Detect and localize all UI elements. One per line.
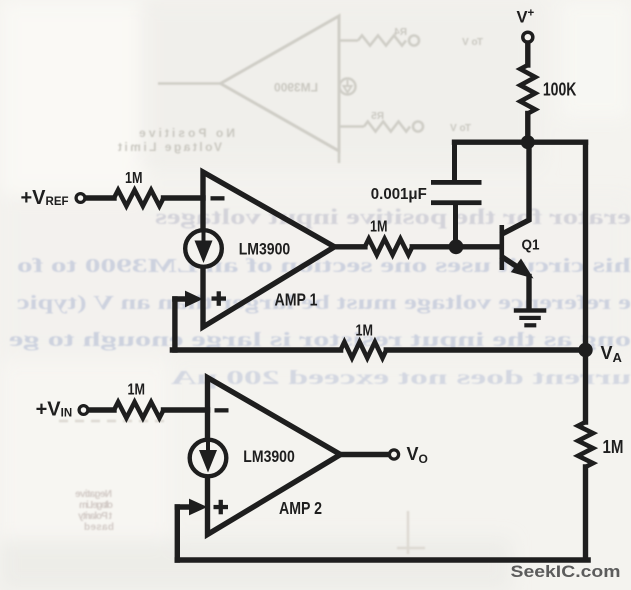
op-amp U2 AMP 2 (LM3900) triangle [208,378,341,535]
label VO [407,444,428,466]
svg-text:100K: 100K [543,79,577,99]
op-amp U1 AMP 1 (LM3900) triangle [203,172,335,327]
svg-text:Q1: Q1 [522,237,540,254]
arrow into U2 plus input [177,499,207,516]
label +VREF [21,187,69,209]
label V+ [517,8,535,27]
svg-text:oltage Lim: oltage Lim [79,500,113,511]
svg-text:t Polarity: t Polarity [78,511,112,522]
wire V+ to R4 [525,43,530,65]
wire +VIN to R5 [90,407,115,412]
wire feedback horizontal to R3 [172,347,340,352]
U2 inverting input minus sign [215,408,229,412]
label 100K [543,79,577,99]
U1 noninverting input plus sign [212,291,227,306]
svg-text:based: based [84,522,114,533]
label LM3900 (U1) [239,239,291,258]
wire R6 to bottom rail [583,467,588,558]
label LM3900 (U2) [243,447,294,466]
terminal +VREF [76,194,85,203]
svg-text:erator for the positive input: erator for the positive input voltages [154,204,631,229]
svg-text:LM3900: LM3900 [274,81,318,95]
svg-text:1M: 1M [125,170,143,187]
wire +VREF to R1 [87,195,115,200]
svg-text:1M: 1M [356,322,374,339]
svg-text:Negative: Negative [75,489,112,500]
svg-text:SeekIC.com: SeekIC.com [511,562,621,581]
label Q1 [522,237,540,254]
node VA junction dot [578,343,592,357]
svg-text:his circuit uses one section o: his circuit uses one section of an LM390… [17,255,631,277]
wire U2 output to VO [341,452,389,457]
watermark SeekIC.com [511,562,621,581]
terminal VO [389,450,398,459]
U2 current-source symbol [190,440,227,477]
wire R1 to AMP1 inverting input [164,195,204,200]
wire top rail (capacitor top to collector node to right rail) [455,139,586,144]
label 1M (R6) [603,437,624,457]
transistor Q1 base bar [500,225,505,270]
svg-text:To V: To V [450,123,471,134]
label 1M (R3) [356,322,374,339]
svg-text:AMP 1: AMP 1 [275,290,318,310]
wire R3 to node VA [386,347,585,352]
svg-text:LM3900: LM3900 [243,447,294,466]
wire U2 plus-input feedback vertical [175,507,180,560]
svg-text:urrent does not exceed 200 µA: urrent does not exceed 200 µA [170,367,631,389]
label 1M (R2) [370,218,388,235]
label 1M (R5) [128,382,146,399]
terminal +VIN [79,406,88,415]
resistor R2 1M (AMP1 output) [365,239,412,255]
wire R4 to collector node [525,114,530,143]
arrow into U1 plus input [175,291,203,308]
resistor R5 1M (VIN input) [114,402,164,418]
label 0.001uF [371,186,427,203]
junction dot below 100K [521,135,535,149]
svg-text:0.001μF: 0.001μF [371,186,427,203]
label AMP 2 [279,498,322,518]
svg-text:1M: 1M [603,437,624,457]
wire R2 to capacitor/base junction [412,244,499,249]
U1 inverting input minus sign [211,196,225,200]
svg-text:LM3900: LM3900 [239,239,291,258]
resistor R1 1M (VREF input) [114,190,164,206]
svg-text:AMP 2: AMP 2 [279,498,322,518]
wire U1 plus-input feedback vertical [172,299,177,350]
svg-text:To V: To V [462,37,483,48]
svg-text:1M: 1M [370,218,388,235]
capacitor C1 0.001uF [431,142,482,247]
label +VIN [36,399,73,421]
junction dot at capacitor/base node [449,239,464,254]
label AMP 1 [275,290,318,310]
U1 current-source symbol [185,230,222,267]
resistor R4 100K [520,65,535,114]
resistor R6 1M (VA to ground loop) [578,422,593,467]
terminal V+ [523,32,533,42]
svg-text:1M: 1M [128,382,146,399]
wire U1 output to R2 [335,244,365,249]
U2 noninverting input plus sign [214,500,229,515]
label VA [601,343,623,365]
Q1 emitter lead with arrow [503,258,534,309]
svg-text:Voltage Limit: Voltage Limit [118,140,222,154]
svg-text:R5: R5 [371,111,384,122]
wire R5 to AMP2 inverting input [164,407,208,412]
ground (Q1 emitter) [514,308,547,327]
resistor R3 1M (AMP1 feedback to VA) [341,342,387,358]
wire right rail (top rail down to VA and R6) [583,142,588,422]
Q1 collector lead [503,142,529,233]
svg-text:R4: R4 [394,27,407,38]
label 1M (R1) [125,170,143,187]
wire bottom rail [177,557,588,563]
